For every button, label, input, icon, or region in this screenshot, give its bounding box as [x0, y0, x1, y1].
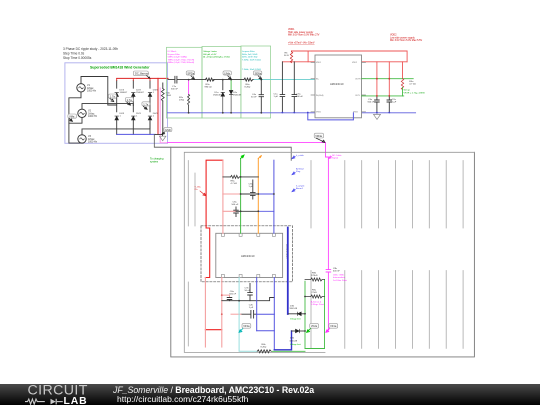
svg-text:VDD1: VDD1	[316, 62, 321, 64]
svg-text:h_cable: h_cable	[296, 155, 304, 157]
svg-text:VR IR = 1.7kμ, 4.8kW: VR IR = 1.7kμ, 4.8kW	[404, 92, 426, 94]
svg-text:1000 Hz: 1000 Hz	[88, 115, 98, 118]
svg-text:OUTL: OUTL	[355, 95, 360, 97]
svg-text:5kHz, 10nF, 3kΩ: 5kHz, 10nF, 3kΩ	[242, 57, 258, 59]
svg-text:1000 Hz: 1000 Hz	[88, 141, 98, 144]
svg-text:5MHz (0.5μF, 50MΩ): 5MHz (0.5μF, 50MΩ)	[168, 57, 188, 59]
svg-text:AmStart: AmStart	[296, 168, 304, 171]
svg-text:Intermediate: Intermediate	[333, 276, 346, 279]
svg-text:VSS1: VSS1	[316, 112, 321, 114]
svg-text:500 nF: 500 nF	[232, 204, 239, 206]
svg-text:990 kΩ: 990 kΩ	[205, 87, 212, 89]
svg-text:1 μF: 1 μF	[249, 307, 254, 309]
svg-text:1N4148: 1N4148	[289, 308, 297, 310]
svg-text:1 μF: 1 μF	[392, 102, 397, 104]
svg-text:IN-(SLA): IN-(SLA)	[316, 94, 324, 97]
svg-text:VMa: VMa	[69, 115, 75, 119]
svg-text:Stop Time 0.00005s: Stop Time 0.00005s	[63, 56, 92, 60]
svg-text:AMC23C10: AMC23C10	[330, 82, 344, 86]
svg-text:1 μF: 1 μF	[249, 186, 254, 188]
svg-text:At +270peak/500μA = 270kΩ: At +270peak/500μA = 270kΩ	[203, 56, 230, 59]
svg-text:50 nF: 50 nF	[251, 97, 257, 99]
svg-text:Step Time 0.0s: Step Time 0.0s	[63, 51, 85, 55]
svg-text:Voltage Limiter: Voltage Limiter	[203, 50, 217, 53]
svg-text:4.7 kΩ: 4.7 kΩ	[231, 183, 238, 185]
svg-text:VM4a: VM4a	[315, 134, 322, 138]
svg-text:500 nF: 500 nF	[368, 102, 375, 104]
svg-text:1.7a: 1.7a	[110, 95, 116, 99]
svg-text:V-Flags Point: V-Flags Point	[311, 303, 324, 306]
svg-text:1N4148: 1N4148	[213, 95, 221, 97]
svg-text:1N4007: 1N4007	[120, 92, 128, 94]
svg-text:27kΩ: 27kΩ	[179, 100, 185, 102]
svg-text:1N4148: 1N4148	[289, 340, 297, 342]
svg-text:3 Phase DC ripple study - 20: 3 Phase DC ripple study - 2023-11-09h	[63, 47, 118, 51]
svg-text:Alarm1: Alarm1	[296, 187, 304, 190]
svg-text:SENa: SENa	[255, 72, 262, 76]
svg-text:OUTH: OUTH	[355, 79, 361, 81]
svg-text:7.3kHz, 10nF, 8.2kΩ: 7.3kHz, 10nF, 8.2kΩ	[242, 59, 261, 61]
svg-text:Voltage limit: Voltage limit	[290, 343, 301, 346]
svg-text:V_INa: V_INa	[195, 187, 202, 189]
svg-text:3_ample: 3_ample	[296, 186, 305, 188]
svg-text:1N4148: 1N4148	[233, 95, 241, 97]
svg-text:27kΩ: 27kΩ	[312, 292, 318, 294]
svg-text:AMC23C10: AMC23C10	[241, 254, 255, 258]
svg-text:9MHz (0.5μF, 27kΩ, 800mH): 9MHz (0.5μF, 27kΩ, 800mH)	[168, 62, 195, 64]
svg-text:500 nF: 500 nF	[171, 89, 178, 91]
svg-text:1.7a: 1.7a	[127, 98, 133, 102]
svg-text:Superseded BM1418 Wind Generat: Superseded BM1418 Wind Generator	[90, 66, 150, 70]
svg-text:8.2kΩ: 8.2kΩ	[261, 347, 267, 349]
svg-text:1 μF: 1 μF	[274, 96, 279, 98]
svg-text:1N4007: 1N4007	[136, 92, 144, 94]
svg-text:DC Block: DC Block	[168, 51, 178, 53]
svg-text:600 μA, ±0.5V: 600 μA, ±0.5V	[203, 53, 217, 56]
svg-text:Min 3.0V Nom 5.0V Max 27V: Min 3.0V Nom 5.0V Max 27V	[288, 34, 320, 37]
svg-text:GND: GND	[165, 128, 171, 132]
svg-text:7MHz (0.5μF, 27kΩ, 270mH): 7MHz (0.5μF, 27kΩ, 270mH)	[168, 59, 195, 61]
svg-text:50 nF: 50 nF	[245, 290, 251, 292]
svg-text:NC Cable: NC Cable	[332, 155, 342, 157]
svg-text:8.2kΩ: 8.2kΩ	[245, 87, 251, 89]
svg-text:1st Filter Point: 1st Filter Point	[333, 279, 347, 282]
svg-text:VF1a: VF1a	[330, 324, 337, 328]
svg-text:3kHz, 5nF, 10kΩ: 3kHz, 5nF, 10kΩ	[242, 54, 258, 56]
svg-text:Signal: Signal	[332, 158, 339, 160]
svg-text:Set up: Set up	[404, 89, 411, 92]
svg-text:A-Sense &: A-Sense &	[311, 300, 322, 303]
svg-text:Voltage limit: Voltage limit	[290, 318, 301, 321]
svg-text:LAB: LAB	[64, 396, 88, 405]
svg-text:1.7a: 1.7a	[143, 102, 149, 106]
svg-text:Lo-pass Filter: Lo-pass Filter	[242, 50, 255, 53]
svg-text:system: system	[150, 160, 158, 164]
svg-text:270kΩ: 270kΩ	[311, 275, 318, 277]
svg-text:CMC: GND: CMC: GND	[333, 275, 344, 277]
svg-text:VF3a: VF3a	[243, 324, 250, 328]
svg-text:Min 3.0V Nom 5.0V Max 5.5V: Min 3.0V Nom 5.0V Max 5.5V	[390, 39, 422, 42]
svg-text:VDD2: VDD2	[352, 62, 357, 64]
svg-text:1000 Hz: 1000 Hz	[87, 90, 97, 93]
svg-text:Hi-pass Filter: Hi-pass Filter	[168, 53, 181, 56]
svg-text:500 nF: 500 nF	[296, 96, 303, 98]
svg-text:500 nF: 500 nF	[333, 271, 340, 273]
svg-text:4.7 kΩ: 4.7 kΩ	[409, 84, 416, 86]
svg-text:SPDa: SPDa	[187, 72, 194, 76]
svg-text:VF2a: VF2a	[311, 324, 318, 328]
svg-text:500 nF: 500 nF	[229, 294, 236, 296]
svg-text:56 Ω: 56 Ω	[284, 55, 289, 57]
svg-text:LIMa: LIMa	[224, 72, 230, 76]
svg-text:+Vth +57mV -Vth -53mV: +Vth +57mV -Vth -53mV	[288, 42, 315, 45]
svg-text:DC_Barrow: DC_Barrow	[135, 72, 149, 76]
